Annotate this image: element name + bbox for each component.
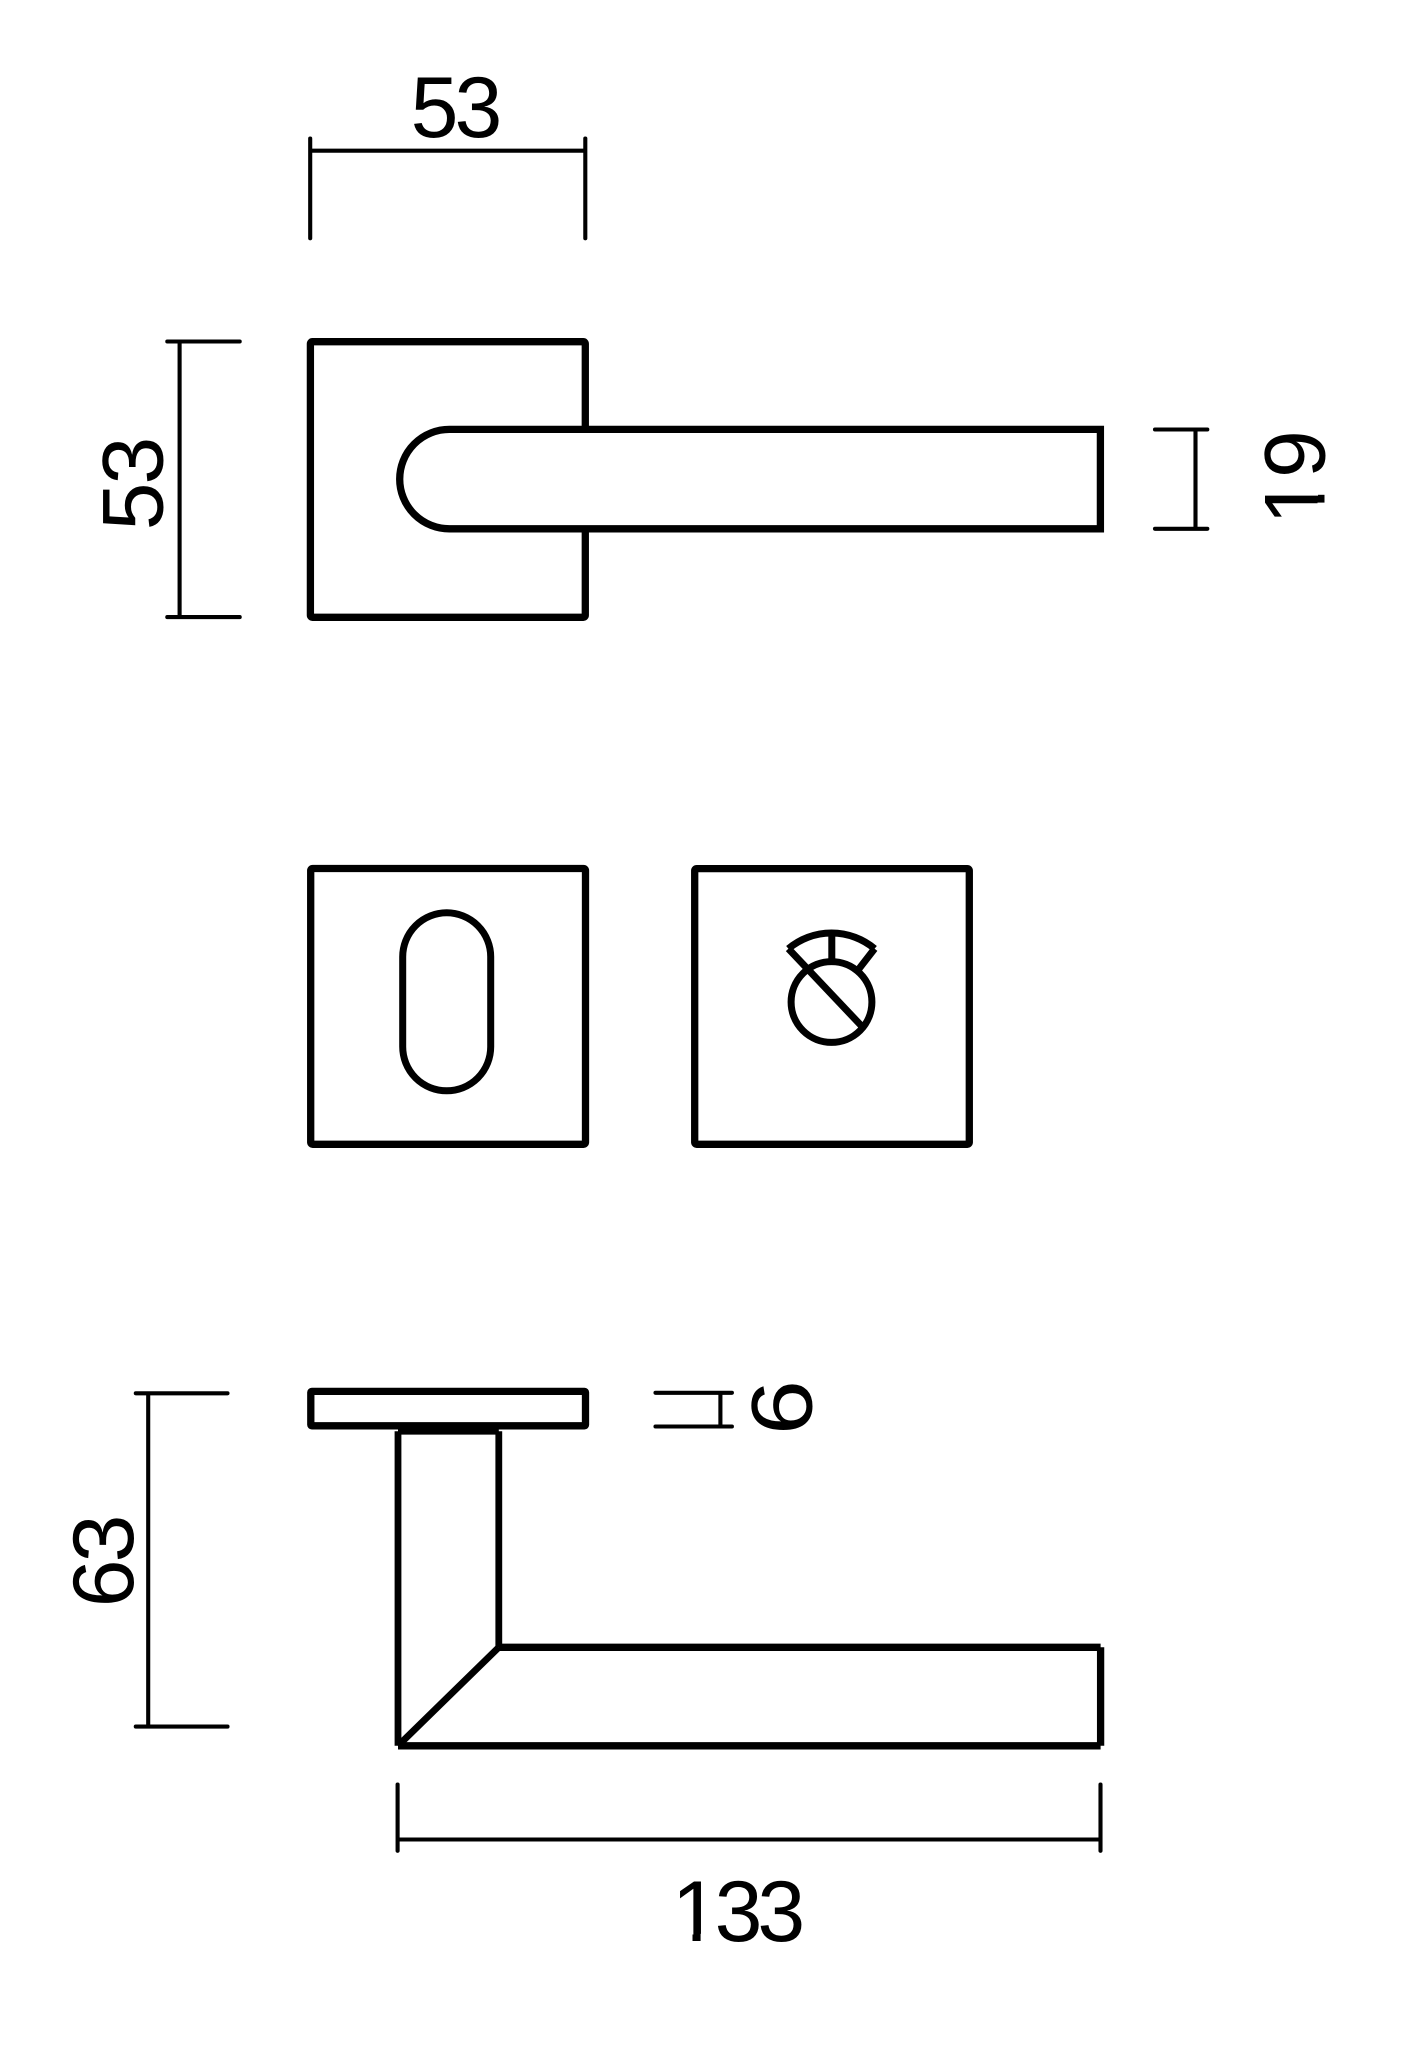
bend miter diagonal — [398, 1647, 499, 1746]
dimension 63: top tick — [136, 1391, 228, 1395]
dimension 133: line — [398, 1837, 1101, 1841]
dimension 53 left: bottom tick — [167, 615, 239, 619]
dimension 19 right: top tick — [1155, 427, 1207, 431]
dimension 63: bottom tick — [136, 1725, 228, 1729]
neck top junction line — [398, 1428, 499, 1435]
svg-text:53: 53 — [411, 60, 500, 156]
svg-text:53: 53 — [85, 439, 181, 531]
dimension 53 top: left tick — [308, 139, 312, 239]
dimension 6: line — [718, 1393, 722, 1427]
WC thumbturn divider — [828, 936, 835, 962]
svg-text:63: 63 — [56, 1517, 152, 1607]
WC thumbturn fan outer arc — [788, 933, 874, 949]
dimension 53 left: line — [178, 342, 182, 618]
rose plate side view — [311, 1391, 586, 1425]
grip right end — [1097, 1647, 1104, 1746]
dimension 133: right tick — [1098, 1785, 1102, 1851]
neck left outline — [395, 1431, 402, 1746]
WC thumbturn circle — [791, 962, 872, 1043]
dimension 63: line — [146, 1393, 150, 1726]
square escutcheon WC turn — [695, 869, 970, 1145]
square escutcheon with keyhole — [311, 869, 586, 1145]
mask to square the 1 serif in 19 — [1318, 472, 1330, 495]
square rose front view — [310, 342, 585, 618]
grip bottom outline — [398, 1742, 1101, 1749]
dimension 53 left: top tick — [167, 339, 239, 343]
neck right outline — [495, 1431, 502, 1647]
dimension 19 right: bottom tick — [1155, 527, 1207, 531]
svg-text:6: 6 — [734, 1380, 831, 1435]
dimension 53 top: line — [310, 149, 585, 153]
grip top outline — [499, 1644, 1101, 1651]
mask to square the 1 serif in 133 — [674, 1934, 693, 1947]
dimension 53 top: right tick — [583, 139, 587, 239]
dimension 6: top tick — [656, 1391, 732, 1395]
dimension 6: bottom tick — [656, 1424, 732, 1428]
lever handle front view — [400, 429, 1101, 528]
dimension 133: left tick — [396, 1785, 400, 1851]
WC thumbturn right wing line — [857, 949, 875, 972]
WC thumbturn slash — [788, 949, 862, 1027]
dimension 19 right: line — [1193, 430, 1197, 529]
keyhole oval slot — [403, 913, 491, 1091]
